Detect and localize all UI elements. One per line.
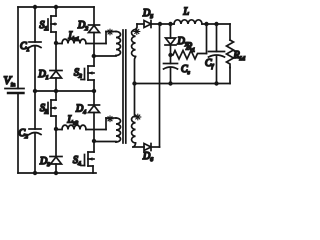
diode D2 bbox=[77, 7, 100, 56]
wire bottom rail bbox=[18, 172, 96, 174]
svg-text:S3: S3 bbox=[40, 103, 48, 115]
svg-text:S2: S2 bbox=[74, 68, 82, 80]
svg-text:D4: D4 bbox=[75, 104, 86, 116]
polarity dot T1 secondary bbox=[134, 29, 140, 35]
svg-text:L: L bbox=[183, 7, 190, 18]
capacitor C7 snubber bbox=[164, 55, 190, 84]
capacitor Co bbox=[205, 24, 225, 84]
wire left column upper bbox=[17, 7, 19, 89]
transistor S3 bbox=[40, 91, 56, 129]
wire rectifier column bbox=[159, 24, 161, 147]
svg-text:D3: D3 bbox=[39, 156, 50, 168]
transistor S1 bbox=[40, 7, 57, 43]
inductor L output bbox=[174, 7, 230, 25]
transistor S4 bbox=[73, 141, 94, 173]
transformer T1 secondary bbox=[132, 24, 137, 84]
polarity dot T2 secondary bbox=[135, 114, 141, 120]
diode D3 bbox=[39, 129, 62, 173]
diode D4 bbox=[75, 91, 100, 141]
wire output return rail bbox=[134, 83, 230, 85]
polarity dot T2 primary bbox=[107, 116, 113, 122]
svg-text:S4: S4 bbox=[73, 155, 81, 167]
wire top rail bbox=[18, 6, 94, 8]
capacitor C2 bbox=[19, 91, 42, 173]
polarity dot T1 primary bbox=[107, 29, 113, 35]
wire left column lower bbox=[17, 93, 19, 173]
source Vin bbox=[4, 73, 25, 93]
resistor RLd load bbox=[227, 24, 246, 84]
svg-text:C2: C2 bbox=[19, 128, 29, 140]
diode D6 bbox=[133, 144, 160, 164]
svg-text:Cs: Cs bbox=[181, 64, 190, 76]
svg-text:R1: R1 bbox=[185, 42, 195, 54]
diode D5 bbox=[137, 8, 174, 28]
svg-text:D5: D5 bbox=[142, 8, 153, 20]
inductor Lr1 bbox=[56, 31, 106, 44]
capacitor C1 bbox=[20, 7, 41, 91]
transistor S2 bbox=[74, 56, 94, 91]
svg-text:D1: D1 bbox=[38, 69, 49, 81]
transformer T2 primary bbox=[94, 118, 121, 142]
transformer core (shared) bbox=[123, 30, 126, 143]
svg-text:S1: S1 bbox=[40, 20, 48, 32]
transformer T1 primary bbox=[94, 32, 121, 57]
svg-text:D6: D6 bbox=[142, 151, 153, 163]
wire mid rail bbox=[35, 90, 94, 92]
svg-text:Lr2: Lr2 bbox=[67, 115, 79, 127]
svg-text:Lr1: Lr1 bbox=[68, 31, 80, 43]
diode D7 snubber bbox=[165, 24, 188, 55]
resistor R7 snubber bbox=[171, 24, 207, 59]
inductor Lr2 bbox=[56, 115, 106, 130]
svg-text:RLd: RLd bbox=[233, 50, 246, 62]
diode D1 bbox=[38, 43, 63, 91]
svg-text:Vin: Vin bbox=[4, 73, 16, 88]
transformer T2 secondary bbox=[132, 84, 136, 148]
svg-text:D2: D2 bbox=[77, 20, 88, 32]
svg-text:Cf: Cf bbox=[205, 58, 215, 70]
